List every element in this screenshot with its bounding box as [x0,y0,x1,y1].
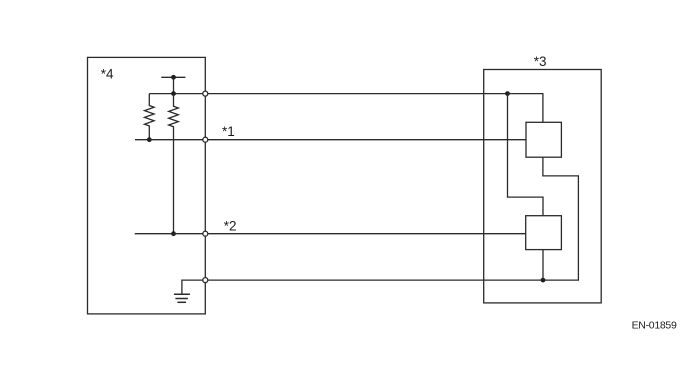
wire ground branch [182,280,205,294]
svg-text:*3: *3 [534,54,547,69]
terminal 1 (connector circle) [203,91,208,96]
wire node A to sensor S1 top [508,94,543,123]
node A dot (supply node in *3) [505,91,510,96]
resistor R1 [145,94,155,140]
power supply symbol (bar) [161,76,185,78]
svg-text:*2: *2 [224,219,237,234]
box U3 (sensor unit outline *3) [484,70,602,303]
svg-text:*1: *1 [222,124,235,139]
wire 2 (net *2) [135,233,526,235]
ground [174,294,190,302]
resistor R2 [169,94,179,234]
wire 1 (net *1) [135,139,526,141]
terminal 4 (connector circle) [203,278,208,283]
junction dot bottom return [541,278,546,283]
terminal 3 (connector circle) [203,231,208,236]
terminal 2 (connector circle) [203,137,208,142]
wire top rail [149,93,507,95]
wire power bar to top rail [173,77,175,93]
junction dot R1 to wire 1 [147,137,152,142]
node dot on power bar [171,75,176,80]
junction dot R2 to wire 2 [171,231,176,236]
wire bottom return [205,157,578,280]
junction dot top rail [171,91,176,96]
sensor S1 [526,122,561,157]
svg-text:*4: *4 [101,67,114,82]
wire node A to sensor S2 top [508,94,544,216]
wire sensor S2 bottom lead [542,250,544,281]
box U4 (control module outline *4) [88,57,206,314]
svg-text:EN-01859: EN-01859 [632,320,677,332]
sensor S2 [526,216,562,250]
